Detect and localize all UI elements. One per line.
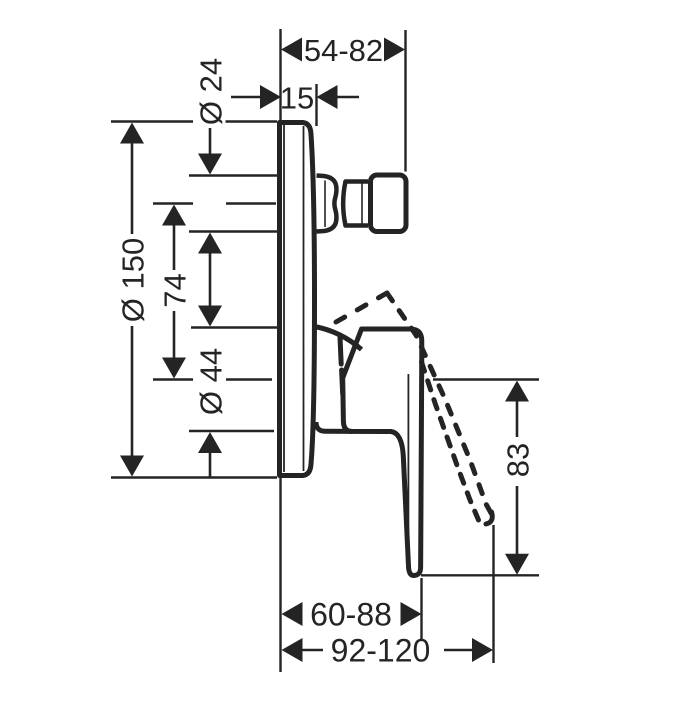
dimension 83 (505, 381, 529, 575)
dimension D150 (120, 123, 144, 477)
knob stem edge line (361, 184, 363, 224)
knob neck face line (324, 181, 326, 228)
handle inner edge line (407, 374, 409, 540)
dimension 74 (162, 205, 186, 379)
handle dome arc (315, 327, 362, 350)
handle lever outline (343, 329, 422, 576)
svg-text:54-82: 54-82 (304, 33, 383, 68)
escutcheon plate side view (280, 123, 315, 476)
svg-text:Ø 24: Ø 24 (193, 58, 228, 125)
dimension D24 (198, 128, 222, 254)
dashed handle grip top edge (336, 293, 387, 322)
dashed lever tip (486, 512, 492, 524)
extension line handle axis (153, 378, 272, 380)
dashed lever inner edge (422, 362, 479, 520)
extension line 60-88 right (420, 578, 422, 640)
extension line plate top (111, 120, 277, 122)
extension line 83 top (433, 378, 539, 380)
svg-text:15: 15 (280, 80, 314, 115)
plate front rim line (283, 125, 285, 472)
diverter knob cap (371, 175, 407, 232)
diverter knob neck (317, 176, 337, 232)
extension line 15 right (315, 84, 317, 126)
extension line 83 bottom (421, 574, 539, 576)
extension line 54-82 left (279, 29, 281, 121)
extension line bottom left (279, 478, 281, 672)
extension line 92-120 right (492, 525, 494, 663)
dashed lever outer edge (387, 293, 491, 513)
svg-text:83: 83 (500, 443, 535, 477)
dimension D44 (198, 253, 222, 477)
svg-text:Ø 44: Ø 44 (193, 348, 228, 415)
dimension 54-82 (281, 38, 405, 62)
handle base connector (316, 422, 352, 431)
diverter knob stem (343, 182, 368, 226)
plate back rim line (303, 126, 305, 471)
dashed handle grip left edge (340, 337, 343, 394)
svg-text:60-88: 60-88 (310, 597, 392, 633)
extension line sleeve top (191, 326, 277, 328)
extension line knob axis (153, 202, 276, 204)
svg-text:92-120: 92-120 (331, 633, 431, 669)
dimension 15 (231, 85, 359, 109)
dimension 60-88 (282, 602, 422, 626)
dimension 92-120 (282, 638, 494, 662)
svg-text:Ø 150: Ø 150 (115, 238, 150, 322)
extension line sleeve bottom (189, 430, 274, 432)
svg-text:74: 74 (157, 273, 192, 307)
extension line 54-82 right (404, 30, 406, 172)
extension line knob top (189, 174, 277, 176)
extension line plate bottom (111, 476, 277, 478)
extension line knob bottom (189, 230, 277, 232)
